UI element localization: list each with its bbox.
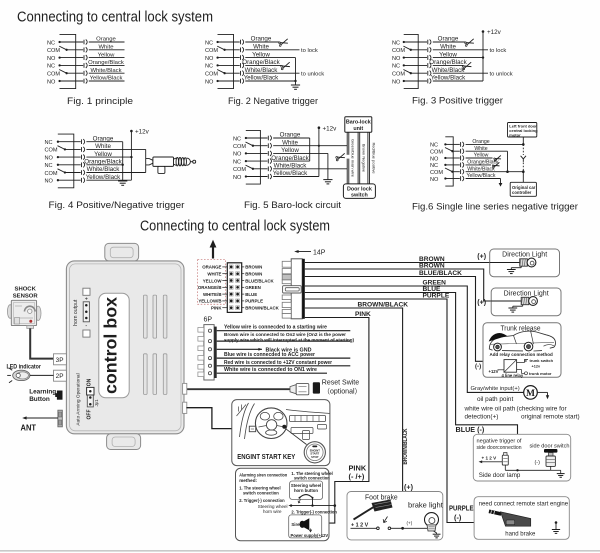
Steering wheel horn wire label <box>258 504 288 514</box>
svg-text:Yellow: Yellow <box>252 51 270 58</box>
BROWN/BLACK vertical label <box>402 428 409 464</box>
label BROWN (14P pin 2 right) <box>242 272 263 277</box>
svg-text:Yellow/Black: Yellow/Black <box>431 75 466 82</box>
wire Yellow (Fig3) <box>433 51 483 58</box>
svg-text:White: White <box>253 44 269 51</box>
wire: Orange+Orange/Black vertical to ground (Fig4) <box>122 142 124 181</box>
wire White to lock (Fig2) <box>245 44 318 55</box>
svg-text:BLUE/BLACK: BLUE/BLACK <box>419 270 462 277</box>
Door lock switch box (Fig5) <box>343 184 375 199</box>
switch contact COM (Fig6 row 5) <box>430 168 464 176</box>
svg-text:NO: NO <box>45 179 54 185</box>
wire Orange/Black cut (Fig3) <box>429 59 471 70</box>
3P socket <box>54 354 67 365</box>
wire Yellow/Black (Fig3) <box>431 75 483 82</box>
switch contact NO (Fig2 row 3) <box>205 55 244 62</box>
caption Fig.5 <box>244 200 341 210</box>
dashboard strip <box>286 410 330 440</box>
side door connection box <box>473 434 570 481</box>
switch contact NO (Fig5 row 3) <box>233 151 272 158</box>
svg-text:Orange: Orange <box>280 132 301 139</box>
wire Orange/Black (Fig4) <box>84 159 122 166</box>
14P label with arrow <box>294 250 326 257</box>
white wire oil path detection label <box>464 406 516 421</box>
+12v supply (Fig5) <box>318 125 338 132</box>
Left front door central locking motor box (Fig6) <box>508 123 539 138</box>
switch contact NC (Fig3 row 1) <box>392 39 431 46</box>
svg-text:controller: controller <box>512 190 532 195</box>
svg-text:original remote start): original remote start) <box>521 413 580 420</box>
windshield pillar lines <box>237 403 255 439</box>
switch contact NC (Fig4 row 4) <box>45 162 85 169</box>
wire Yellow (Fig5) <box>273 147 328 154</box>
wire BROWN 1 to Direction Light <box>305 256 490 263</box>
svg-text:to unlock: to unlock <box>301 72 324 78</box>
LED wire to 2P <box>30 374 54 376</box>
wire Orange/Black cut (Fig6) <box>466 160 500 169</box>
(+) label direction light 2 <box>477 299 486 306</box>
svg-text:brake light: brake light <box>408 500 443 509</box>
svg-text:NC: NC <box>430 143 438 149</box>
brake light bulb <box>425 513 439 535</box>
svg-text:Yellow wire is connecded to a: Yellow wire is connecded to a starting w… <box>224 325 327 331</box>
wire White to lock (Fig3) <box>433 44 507 55</box>
svg-text:NC: NC <box>47 64 55 70</box>
wire GREEN to oil path point <box>305 280 524 393</box>
svg-text:Fig. 1 principle: Fig. 1 principle <box>67 96 133 106</box>
brake pedal drawing <box>354 500 393 523</box>
wire Orange/Black (Fig5) <box>271 155 309 162</box>
svg-text:NC: NC <box>205 64 213 70</box>
switch contact NC (Fig1 row 1) <box>47 39 87 46</box>
wire black GND (6P) + note <box>217 347 312 353</box>
svg-text:NO: NO <box>233 175 242 181</box>
wire PINK to horn circuits <box>305 311 371 523</box>
car with open trunk <box>489 331 555 351</box>
svg-text:Direction Light: Direction Light <box>502 251 547 258</box>
switch bank bracket (Fig6) <box>445 137 453 186</box>
svg-text:control box: control box <box>101 297 121 394</box>
svg-text:Alarming siren connection: Alarming siren connection <box>239 472 287 477</box>
svg-text:PURPLE: PURPLE <box>449 506 474 513</box>
motor M circle <box>524 386 538 400</box>
svg-text:COM: COM <box>205 48 218 54</box>
svg-text:Orange: Orange <box>438 36 459 43</box>
svg-text:COM: COM <box>430 150 443 156</box>
svg-text:NO: NO <box>47 79 56 85</box>
svg-text:White wire is connecded to ON1: White wire is connecded to ON1 wire <box>224 367 317 373</box>
svg-text:side doorconnection: side doorconnection <box>477 445 522 451</box>
svg-text:Yellow: Yellow <box>94 151 112 158</box>
svg-text:NO: NO <box>430 156 439 162</box>
ANT label <box>21 424 37 433</box>
svg-text:(+): (+) <box>407 521 413 526</box>
wire: White to White/Black vertical link (Fig6) <box>506 151 509 173</box>
2P socket <box>54 370 67 381</box>
svg-text:GREEN: GREEN <box>245 285 261 290</box>
vent slots group 2 <box>144 354 167 395</box>
svg-text:Direction Light: Direction Light <box>504 290 549 297</box>
+12V arrow (side door) <box>479 455 498 463</box>
wire Orange (Fig5) <box>273 132 310 139</box>
wire BROWN 2 to Direction Light 2 <box>305 263 491 301</box>
foot brake switch <box>351 527 403 530</box>
svg-text:-: - <box>85 323 87 329</box>
switch contact NC (Fig5 row 4) <box>233 159 272 166</box>
(+) label on BROWN/BLACK <box>404 483 414 492</box>
svg-text:to lock: to lock <box>301 48 318 54</box>
ground (side door switch) <box>551 470 565 477</box>
svg-text:OFF: OFF <box>86 410 92 420</box>
switch contact NC (Fig4 row 1) <box>45 139 85 146</box>
svg-text:+12v: +12v <box>323 125 338 132</box>
caption Fig.3 <box>412 96 503 106</box>
switch bank bracket (Fig4) <box>58 134 74 188</box>
+12V label (foot brake) <box>351 522 369 528</box>
svg-text:Yellow: Yellow <box>474 153 489 159</box>
svg-text:Orange/Black: Orange/Black <box>242 59 280 66</box>
svg-text:NO: NO <box>233 152 242 158</box>
switch contact NO (Fig3 row 3) <box>392 55 431 62</box>
svg-text:Orange/Black: Orange/Black <box>467 160 499 166</box>
svg-text:Fig. 3 Positive trigger: Fig. 3 Positive trigger <box>412 96 503 106</box>
label ORANGE/B (14P pin 4 left) <box>198 285 227 290</box>
svg-text:NO: NO <box>205 56 214 62</box>
switch contact NC (Fig6 row 4) <box>430 162 464 169</box>
negative trigger of side door labels <box>477 438 570 451</box>
LED indicator device <box>7 368 30 383</box>
Trunk release box <box>483 323 561 378</box>
svg-text:NC: NC <box>45 163 53 169</box>
switch contact COM (Fig1 row 5) <box>47 70 87 78</box>
svg-text:hand brake: hand brake <box>505 532 536 538</box>
key wire terminal on column <box>249 426 255 432</box>
switch contact NO (Fig1 row 3) <box>47 55 87 62</box>
wire: Orange-Orange/Black link vertical (Fig5) <box>309 138 311 161</box>
switch contact COM (Fig5 row 2) <box>233 142 272 150</box>
wire BLUE to side door <box>305 286 518 470</box>
svg-text:(checking wire for: (checking wire for <box>517 406 568 413</box>
svg-text:Orange: Orange <box>251 36 272 43</box>
6P label <box>204 317 213 324</box>
svg-text:COM: COM <box>392 72 405 78</box>
label GREEN (14P pin 4 right) <box>242 285 261 290</box>
svg-text:Yellow: Yellow <box>281 147 299 154</box>
svg-text:+12v: +12v <box>532 365 541 369</box>
door lock actuator (Fig4) <box>146 157 196 173</box>
svg-text:14P: 14P <box>313 250 326 257</box>
Foot brake label <box>365 492 398 501</box>
svg-text:COM: COM <box>233 167 246 173</box>
oil path point label <box>477 396 513 403</box>
switch contact NC (Fig1 row 4) <box>47 63 87 70</box>
ground (brake light) <box>433 534 441 538</box>
wire Yellow/Black (Fig5) <box>273 170 319 177</box>
svg-text:+12v: +12v <box>487 29 502 36</box>
svg-text:white wire oil path: white wire oil path <box>464 406 516 413</box>
switch contact COM (Fig1 row 2) <box>47 46 87 54</box>
svg-text:+12v: +12v <box>135 129 150 136</box>
svg-text:Yellow/Black: Yellow/Black <box>467 173 496 179</box>
svg-text:SENSOR: SENSOR <box>13 294 39 300</box>
Gray/white input label <box>471 386 520 392</box>
svg-text:BROWN: BROWN <box>245 272 262 277</box>
caption Fig.6 <box>412 202 578 212</box>
svg-text:NC: NC <box>430 163 438 169</box>
wire Orange (Fig1) <box>89 37 125 43</box>
ANT antenna <box>22 410 62 427</box>
(+) small label at bulb <box>407 521 413 526</box>
svg-text:COM: COM <box>45 148 58 154</box>
svg-text:(+): (+) <box>477 299 486 306</box>
svg-text:White/Black: White/Black <box>90 68 121 74</box>
LED indicator label <box>7 363 42 370</box>
svg-text:NC: NC <box>392 64 400 70</box>
svg-text:supply wire which will interru: supply wire which will interrupted at th… <box>224 338 355 343</box>
control box bottom tab <box>107 434 141 450</box>
wire BLUE/BLACK to trunk release <box>305 270 504 361</box>
svg-text:PURPLE: PURPLE <box>423 293 450 300</box>
svg-text:switch connection: switch connection <box>243 490 279 495</box>
svg-text:Connecting to central lock sys: Connecting to central lock system <box>140 218 330 234</box>
svg-text:(-): (-) <box>535 460 541 466</box>
svg-text:3P: 3P <box>56 357 64 364</box>
wire Yellow cut (Fig6) <box>466 153 501 162</box>
svg-text:Connecting to central lock sys: Connecting to central lock system <box>17 10 213 26</box>
svg-text:LED indicator: LED indicator <box>7 363 42 370</box>
wire PURPLE to hand brake <box>305 293 556 523</box>
wire Yellow (Fig4) <box>86 151 131 158</box>
switch contact NO (Fig5 row 6) <box>233 174 272 181</box>
switch contact NO (Fig6 row 3) <box>430 155 464 162</box>
reset switch wire <box>186 388 290 390</box>
wire White/Black to unlock (Fig3) <box>432 67 513 78</box>
junction brake light <box>401 527 424 530</box>
wire White/Black (Fig6) <box>466 166 525 173</box>
svg-text:NO: NO <box>47 56 56 62</box>
svg-text:NO: NO <box>392 56 401 62</box>
svg-text:Auto Arming Operational: Auto Arming Operational <box>76 373 82 425</box>
wire red +12V (6P) + note <box>217 360 351 366</box>
switch contact COM (Fig3 row 2) <box>392 46 431 54</box>
svg-text:White: White <box>474 146 487 152</box>
6P connector housing <box>198 325 217 380</box>
caption Fig.1 <box>67 96 133 106</box>
svg-text:Fig.6 Single line series nega: Fig.6 Single line series negative trigge… <box>412 202 578 212</box>
svg-text:White: White <box>98 45 114 51</box>
svg-text:NC: NC <box>392 40 400 46</box>
Direction Light box 2 <box>491 288 561 316</box>
svg-text:NO: NO <box>392 79 401 85</box>
svg-text:+ 1 2 V: + 1 2 V <box>482 455 498 460</box>
label BROWN/BLACK (14P pin 7 right) <box>242 306 280 311</box>
svg-text:YELLOW/B: YELLOW/B <box>198 299 221 304</box>
wire: series link motor-controller with inline connector (Fig6) <box>521 137 526 182</box>
svg-text:NC: NC <box>47 40 55 46</box>
label ORANGE (14P pin 1 left) <box>202 265 227 270</box>
ground (hand brake) <box>552 521 560 533</box>
dashboard box (ENGINT START KEY) <box>232 400 330 466</box>
wire: Yellow vertical to ground (Fig5) <box>327 153 329 179</box>
wire Orange/Black cut (Fig2) <box>242 59 290 70</box>
need connect remote start engine box <box>474 497 569 540</box>
wire Orange (Fig6) <box>466 139 525 146</box>
svg-text:(+): (+) <box>477 253 486 260</box>
svg-text:WHITE: WHITE <box>207 272 221 277</box>
svg-text:Orange: Orange <box>472 139 489 145</box>
svg-text:Reset Swite: Reset Swite <box>322 380 359 387</box>
label YELLOW/B (14P pin 6 left) <box>198 299 227 304</box>
sub box 1: steering wheel switch connection <box>290 471 333 503</box>
svg-text:Power supply(+12V: Power supply(+12V <box>291 533 329 538</box>
wire: Yellow/YellowBlack common vertical to ground (Fig2) <box>294 58 296 85</box>
control box top tab <box>105 243 139 261</box>
hand brake label <box>505 532 536 538</box>
svg-text:PINK: PINK <box>355 311 371 318</box>
svg-text:NC: NC <box>233 136 241 142</box>
svg-text:Yellow/Black: Yellow/Black <box>90 76 123 82</box>
svg-text:YELLOW: YELLOW <box>203 278 223 283</box>
wire: +12v vertical to Yellow/Black (Fig5) <box>318 128 320 177</box>
svg-text:ORANGE/B: ORANGE/B <box>198 285 222 290</box>
svg-text:Orange/Black: Orange/Black <box>88 60 124 66</box>
Direction Light box 1 <box>490 249 560 277</box>
relay 4 line <box>489 360 524 378</box>
svg-text:M: M <box>526 389 535 399</box>
control box body <box>66 261 184 434</box>
label WHITE/B (14P pin 5 left) <box>203 292 227 297</box>
14P pin block <box>227 263 241 313</box>
wire white ON1 (6P) + note <box>217 367 327 373</box>
wire Orange cut (Fig3) <box>433 36 474 47</box>
svg-text:White: White <box>95 143 111 150</box>
wire brown (6P) + note <box>217 332 355 343</box>
switch contact NC (Fig6 row 1) <box>430 142 464 149</box>
wire White/Black (Fig5) <box>273 163 347 170</box>
svg-text:White/Black: White/Black <box>432 67 466 74</box>
wire Yellow/Black (Fig4) <box>86 174 132 181</box>
svg-text:NC: NC <box>205 40 213 46</box>
Reset Swite (optional) label <box>322 380 362 396</box>
ground (Fig5) <box>323 180 332 184</box>
control box label <box>99 293 129 398</box>
wire Orange/Black (Fig1) <box>88 60 124 66</box>
svg-text:PURPLE: PURPLE <box>245 299 263 304</box>
+12v supply (Fig3) <box>482 29 502 36</box>
Learning Button label <box>29 389 56 403</box>
svg-text:switch connection: switch connection <box>294 476 330 481</box>
side door lamp icon <box>490 453 509 471</box>
title: Connecting to central lock system (middle) <box>140 218 330 234</box>
scissors cutting main wire (Fig5) <box>336 153 345 161</box>
switch contact NO (Fig2 row 6) <box>205 78 244 85</box>
PURPLE (-) label <box>449 506 474 523</box>
svg-text:Brown Negative: Brown Negative <box>362 144 367 173</box>
label WHITE (14P pin 2 left) <box>207 272 227 277</box>
svg-text:Learning: Learning <box>29 389 56 396</box>
svg-text:negative trigger of: negative trigger of <box>477 438 523 444</box>
alarming siren connection box <box>236 468 330 540</box>
switch contact NC (Fig2 row 1) <box>205 39 244 46</box>
Auto Arming Operational jumper Jp1 <box>76 373 99 425</box>
svg-text:NO: NO <box>430 177 439 183</box>
svg-text:side door switch: side door switch <box>530 444 570 450</box>
control box side tab (reset) <box>183 383 187 394</box>
svg-text:Orange/Black: Orange/Black <box>271 155 309 162</box>
svg-text:Fig. 2 Negative trigger: Fig. 2 Negative trigger <box>228 96 318 106</box>
svg-text:+ 1 2 V: + 1 2 V <box>351 522 369 528</box>
(-) label trunk wire <box>475 363 481 370</box>
horn wire junction line <box>289 498 336 507</box>
wire White/Black to unlock (Fig2) <box>245 67 325 78</box>
svg-text:(-): (-) <box>454 513 462 522</box>
svg-text:need connect remote start engi: need connect remote start engine <box>479 501 569 507</box>
wire Yellow/Black (Fig2) <box>244 75 296 82</box>
svg-text:Gray/white input(+): Gray/white input(+) <box>471 386 520 392</box>
Red/Blue positive wire (Fig5) <box>368 132 377 184</box>
steering wheel <box>255 408 287 439</box>
svg-text:2. Trigger(-) connection: 2. Trigger(-) connection <box>239 498 285 503</box>
wire Yellow (Fig2) <box>245 51 295 58</box>
switch contact COM (Fig5 row 5) <box>233 165 272 173</box>
reset switch plug <box>290 382 320 395</box>
svg-text:ORANGE: ORANGE <box>202 265 221 270</box>
svg-text:Yellow: Yellow <box>439 51 457 58</box>
switch contact COM (Fig6 row 2) <box>430 148 464 156</box>
caption Fig.4 <box>49 200 185 210</box>
switch contact NC (Fig2 row 4) <box>205 63 244 70</box>
Side door lamp label <box>479 472 521 479</box>
hand brake drawing <box>489 510 531 527</box>
shock sensor wire to 3P <box>30 328 53 358</box>
learning button part <box>55 391 62 400</box>
(+) label direction light 1 <box>477 253 486 260</box>
svg-text:Add relay connection method: Add relay connection method <box>490 352 554 357</box>
svg-text:PINK: PINK <box>211 306 222 311</box>
wire BROWN/BLACK to brake light <box>305 302 408 529</box>
svg-text:Red wire is connected to +12V: Red wire is connected to +12V constant p… <box>224 360 332 366</box>
switch bank bracket (Fig2) <box>218 34 234 88</box>
wire Yellow/Black with ground arrow (Fig6) <box>466 173 503 186</box>
svg-text:to unlock: to unlock <box>490 72 513 78</box>
svg-text:BLUE (-): BLUE (-) <box>456 425 485 434</box>
ground (Fig4) <box>118 181 127 185</box>
brake light label <box>408 500 443 509</box>
Foot brake box <box>347 492 443 540</box>
arrow after motor <box>537 392 549 399</box>
control box side tab (key wire) <box>183 402 187 413</box>
svg-text:detection(+): detection(+) <box>465 413 499 420</box>
svg-text:horn wire: horn wire <box>263 509 282 514</box>
svg-text:White/Black: White/Black <box>274 163 308 170</box>
ENGINT START KEY label <box>237 452 295 461</box>
svg-text:Foot brake: Foot brake <box>365 492 398 501</box>
side door switch icon <box>544 449 557 470</box>
svg-text:（optional）: （optional） <box>323 388 362 396</box>
svg-text:White/Black: White/Black <box>245 67 279 74</box>
switch contact COM (Fig4 row 5) <box>45 169 85 177</box>
switch contact COM (Fig2 row 2) <box>205 46 244 54</box>
wire White (Fig6) <box>466 146 508 152</box>
14P connector housing <box>282 259 305 319</box>
Baro-lock unit box (Fig5) <box>345 117 372 133</box>
svg-text:trunk switch: trunk switch <box>530 358 554 363</box>
svg-text:ON: ON <box>86 378 92 386</box>
label PINK (14P pin 7 left) <box>211 306 227 311</box>
svg-text:oil path point: oil path point <box>477 396 513 403</box>
svg-text:Fig. 4 Positive/Negative trig: Fig. 4 Positive/Negative trigger <box>49 200 185 210</box>
svg-text:2. Trigger(-) connection: 2. Trigger(-) connection <box>291 510 337 515</box>
